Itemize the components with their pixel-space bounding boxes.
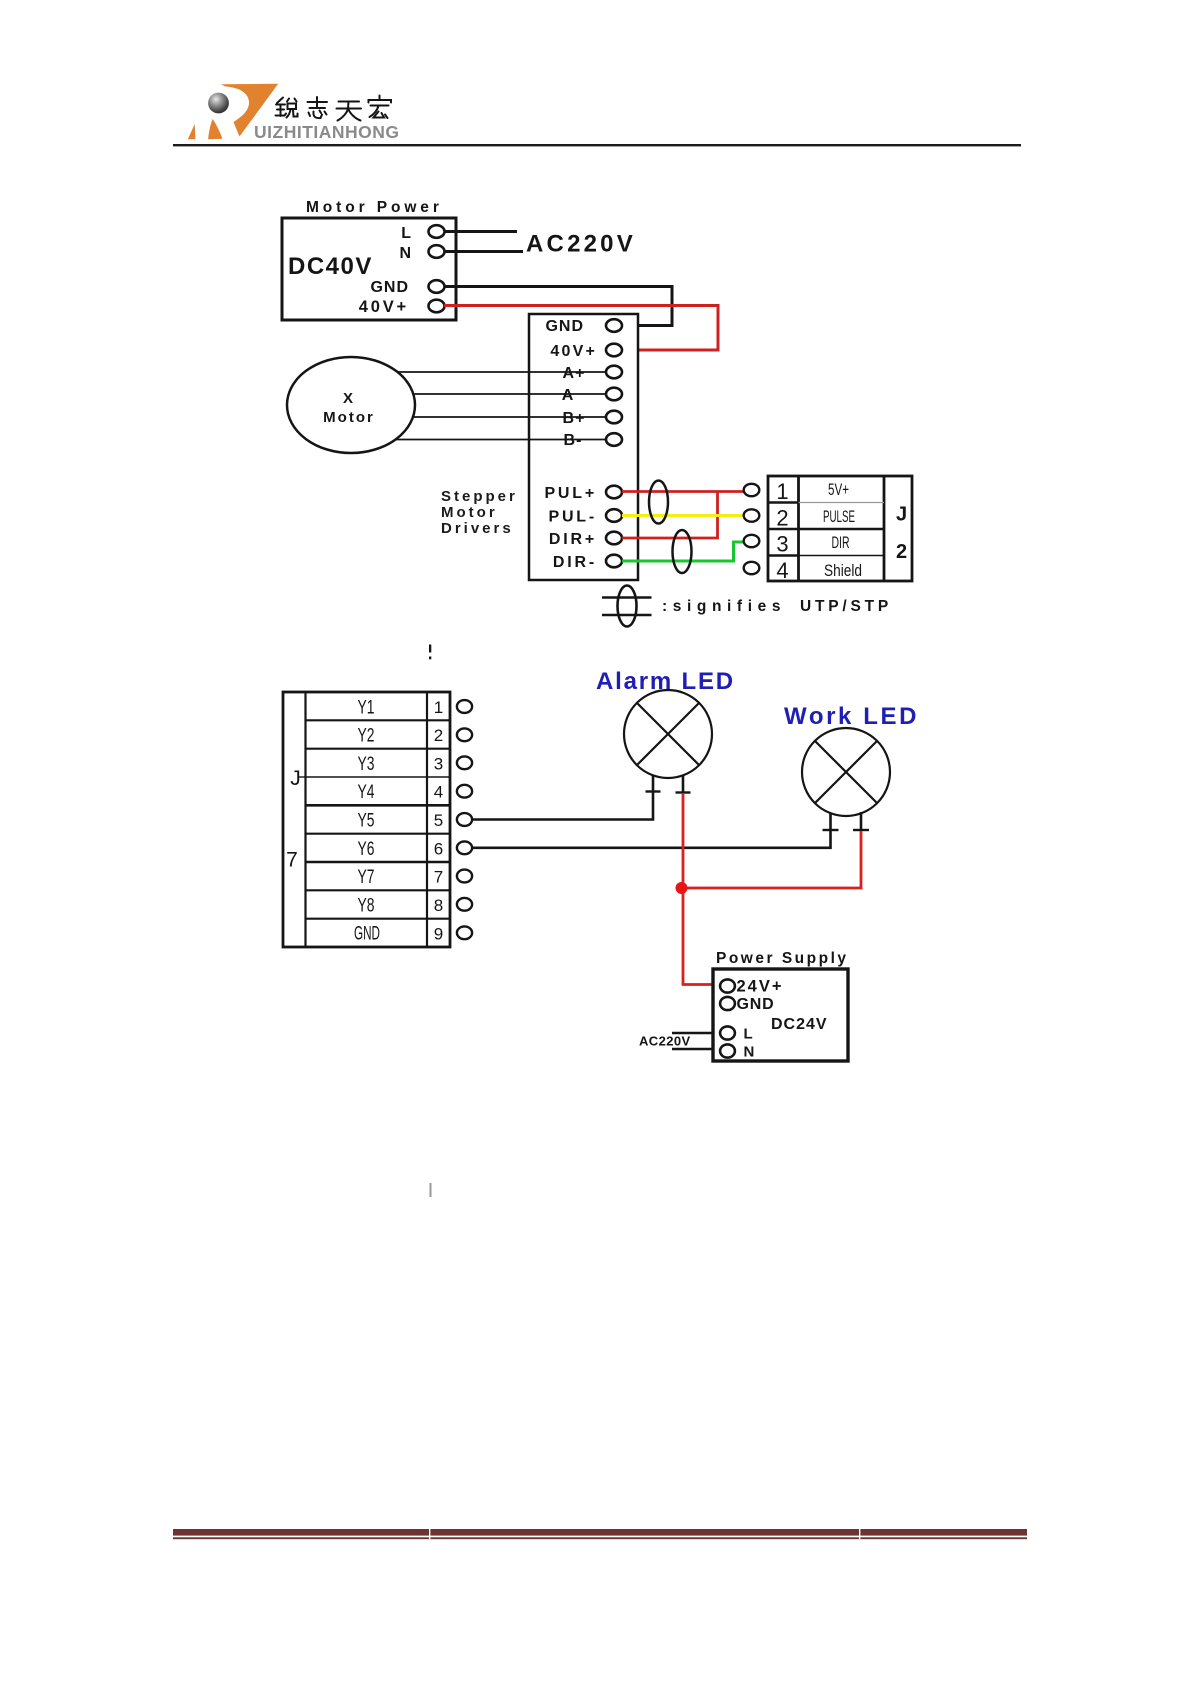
- work LED right lead tick: [853, 829, 869, 831]
- wire DIR- to J2 pin3 (green): [622, 542, 744, 561]
- wire motor phase B-: [396, 439, 606, 441]
- svg-text:5V+: 5V+: [828, 481, 849, 499]
- driver terminal 40V+: [606, 344, 622, 357]
- svg-text:2: 2: [434, 726, 443, 745]
- svg-text:GND: GND: [545, 318, 584, 335]
- svg-text:Y2: Y2: [358, 726, 375, 747]
- J2 pin number 1: [776, 479, 788, 504]
- svg-text:Power Supply: Power Supply: [716, 950, 849, 967]
- svg-text:Y6: Y6: [358, 839, 375, 860]
- connector J2 table: [768, 476, 912, 581]
- svg-text:8: 8: [434, 896, 443, 915]
- driver terminal A+: [606, 366, 622, 379]
- J7 signal GND: [354, 924, 380, 945]
- legend twisted-pair symbol: [602, 586, 652, 627]
- label Work LED: [784, 703, 919, 730]
- wire 40V+ to driver 40V+ (red): [444, 306, 718, 351]
- Power Supply title: [716, 950, 849, 967]
- J7 signal Y7: [358, 867, 375, 888]
- driver pin label PUL+: [544, 485, 597, 502]
- J2 pin1 terminal: [744, 484, 760, 496]
- pin label L: [401, 225, 411, 242]
- svg-text:UIZHITIANHONG: UIZHITIANHONG: [254, 122, 400, 142]
- work LED lamp: [802, 728, 890, 816]
- svg-text::signifies: :signifies: [662, 598, 786, 615]
- J2 pin number 4: [776, 558, 788, 583]
- svg-text:Y1: Y1: [358, 697, 375, 718]
- J2 pin number 3: [776, 532, 788, 557]
- logo Chinese characters 锐志天宏: [276, 96, 392, 121]
- J7 pin number 5: [434, 811, 443, 830]
- stray cursor mark: [430, 1183, 432, 1197]
- svg-text:DIR-: DIR-: [553, 554, 597, 571]
- svg-text:AC220V: AC220V: [639, 1034, 691, 1049]
- alarm LED left lead tick: [646, 790, 661, 792]
- svg-text:J: J: [896, 504, 907, 526]
- connector designator J7: [286, 767, 301, 872]
- svg-text:Y5: Y5: [358, 810, 375, 831]
- svg-text:Shield: Shield: [824, 562, 862, 580]
- svg-text:X: X: [343, 390, 355, 407]
- svg-text:L: L: [744, 1026, 753, 1043]
- junction node: [676, 882, 688, 894]
- stepper motor driver box: [529, 314, 638, 580]
- driver terminal DIR+: [606, 532, 622, 545]
- svg-text:7: 7: [286, 849, 298, 872]
- Motor Power supply box: [282, 218, 456, 320]
- svg-text:GND: GND: [370, 279, 409, 296]
- J7 pin number 8: [434, 896, 443, 915]
- 天: [339, 101, 360, 103]
- svg-text:N: N: [399, 245, 411, 262]
- X motor body: [287, 357, 415, 453]
- svg-text:N: N: [744, 1044, 755, 1061]
- header rule line: [173, 144, 1021, 146]
- terminal GND: [429, 280, 445, 293]
- J2 pin3 terminal: [744, 535, 760, 547]
- J7 signal Y2: [358, 726, 375, 747]
- svg-text:4: 4: [434, 783, 443, 802]
- twisted-pair symbol over PUL wires: [649, 481, 668, 524]
- svg-text:3: 3: [776, 532, 788, 557]
- svg-text:40V+: 40V+: [359, 298, 409, 316]
- Motor Power supply box label: [306, 199, 443, 216]
- driver pin label B+: [563, 410, 586, 427]
- svg-text:7: 7: [434, 868, 443, 887]
- pin label 24V+: [737, 978, 784, 996]
- J7 signal Y5: [358, 810, 375, 831]
- terminal GND (24V): [720, 997, 735, 1010]
- terminal L (mains): [720, 1026, 735, 1039]
- driver terminal PUL+: [606, 486, 622, 499]
- label Alarm LED: [596, 668, 735, 695]
- 锐: [277, 98, 283, 104]
- J7 signal Y6: [358, 839, 375, 860]
- svg-text:PUL+: PUL+: [544, 485, 597, 502]
- svg-text:Motor: Motor: [441, 504, 498, 521]
- svg-text:AC220V: AC220V: [526, 231, 636, 258]
- svg-text:B-: B-: [564, 432, 583, 449]
- driver pin label A+: [563, 365, 586, 382]
- svg-text:2: 2: [896, 541, 907, 563]
- pin label 40V+: [359, 298, 409, 316]
- driver pin label DIR-: [553, 554, 597, 571]
- wire GND to driver GND: [444, 287, 672, 326]
- svg-text:1: 1: [776, 479, 788, 504]
- svg-text:Motor: Motor: [323, 409, 375, 426]
- svg-text:GND: GND: [737, 996, 775, 1013]
- J7 pin number 7: [434, 868, 443, 887]
- pin label L: [744, 1026, 753, 1043]
- pin label GND: [737, 996, 775, 1013]
- terminal 24V+: [720, 979, 735, 992]
- 宏: [379, 96, 381, 100]
- legend text signifies UTP/STP: [662, 598, 892, 615]
- svg-text:L: L: [401, 225, 411, 242]
- J2 pin number 2: [776, 506, 788, 531]
- svg-text:GND: GND: [354, 924, 380, 945]
- svg-text:PUL-: PUL-: [548, 509, 597, 526]
- terminal L: [429, 225, 445, 238]
- terminal N: [429, 245, 445, 258]
- J7 terminal 4: [457, 785, 472, 798]
- svg-text:Drivers: Drivers: [441, 520, 514, 537]
- J7 pin number 3: [434, 754, 443, 773]
- svg-text:Work LED: Work LED: [784, 703, 919, 730]
- wire Y6 to work LED: [472, 812, 831, 848]
- footer rule bar: [173, 1529, 1027, 1539]
- pin label GND: [370, 279, 409, 296]
- J7 terminal 8: [457, 898, 472, 911]
- wire PUL+ to J2 pin1 (red): [622, 490, 744, 493]
- svg-text:5: 5: [434, 811, 443, 830]
- work LED right lead: [860, 812, 863, 831]
- svg-text:A+: A+: [563, 365, 586, 382]
- wire mains N: [672, 1048, 713, 1050]
- driver terminal B-: [606, 433, 622, 446]
- svg-text:J: J: [290, 767, 301, 790]
- svg-text:DC40V: DC40V: [288, 253, 373, 280]
- J7 pin number 4: [434, 783, 443, 802]
- J2 signal Shield: [824, 562, 862, 580]
- J7 signal Y4: [358, 782, 375, 803]
- driver terminal A: [606, 388, 622, 401]
- label Stepper Motor Drivers: [441, 488, 518, 537]
- J7 signal Y8: [358, 895, 375, 916]
- wire motor phase A: [413, 393, 606, 395]
- svg-text:Y8: Y8: [358, 895, 375, 916]
- wire N to AC220V: [444, 250, 523, 253]
- svg-text:B+: B+: [563, 410, 586, 427]
- wire Y5 to alarm LED: [472, 775, 653, 820]
- driver pin label 40V+: [550, 343, 597, 360]
- driver pin label B-: [564, 432, 583, 449]
- driver pin label PUL-: [548, 509, 597, 526]
- pin label N: [744, 1044, 755, 1061]
- J7 terminal 7: [457, 870, 472, 883]
- wire motor phase A+: [397, 371, 606, 373]
- svg-text:Stepper: Stepper: [441, 488, 518, 505]
- J7 terminal 1: [457, 700, 472, 713]
- J7 signal Y1: [358, 697, 375, 718]
- J2 signal PULSE: [823, 508, 855, 526]
- work LED left lead tick: [823, 829, 839, 831]
- svg-text:UTP/STP: UTP/STP: [800, 598, 892, 615]
- svg-text:DIR+: DIR+: [549, 531, 597, 548]
- power supply box: [713, 969, 848, 1061]
- driver pin label A: [562, 387, 575, 404]
- twisted-pair symbol over DIR wires: [673, 530, 692, 573]
- wire PUL- to J2 pin2 (yellow): [622, 514, 744, 517]
- svg-text:DC24V: DC24V: [771, 1016, 828, 1033]
- svg-text:DIR: DIR: [832, 534, 850, 552]
- svg-text:9: 9: [434, 924, 443, 943]
- svg-text:PULSE: PULSE: [823, 508, 855, 526]
- wire DIR+ to 5V rail (red): [622, 492, 718, 539]
- J7 terminal 6: [457, 841, 472, 854]
- 志: [308, 101, 328, 103]
- J7 pin number 1: [434, 698, 443, 717]
- J7 terminal 2: [457, 728, 472, 741]
- svg-text:1: 1: [434, 698, 443, 717]
- company logo mark: [188, 84, 278, 140]
- driver terminal PUL-: [606, 509, 622, 522]
- terminal 40V+: [429, 300, 445, 313]
- J7 pin number 6: [434, 839, 443, 858]
- J2 signal 5V+: [828, 481, 849, 499]
- connector J7 table: [283, 692, 450, 947]
- J7 terminal 9: [457, 926, 472, 939]
- wire motor phase B+: [413, 416, 606, 418]
- svg-text:Motor Power: Motor Power: [306, 199, 443, 216]
- svg-text:Y7: Y7: [358, 867, 375, 888]
- value label DC40V: [288, 253, 373, 280]
- svg-text:Y3: Y3: [358, 754, 375, 775]
- svg-text:40V+: 40V+: [550, 343, 597, 360]
- driver pin label DIR+: [549, 531, 597, 548]
- wire mains L: [672, 1032, 713, 1034]
- svg-text:Y4: Y4: [358, 782, 375, 803]
- J7 signal Y3: [358, 754, 375, 775]
- terminal N (mains): [720, 1044, 735, 1057]
- J2 signal DIR: [832, 534, 850, 552]
- J7 terminal 3: [457, 756, 472, 769]
- wire work LED to junction (red): [683, 831, 861, 888]
- pin label N: [399, 245, 411, 262]
- net label AC220V (mains input): [639, 1034, 691, 1049]
- J2 pin4 terminal: [744, 562, 760, 574]
- J7 pin number 9: [434, 924, 443, 943]
- driver terminal DIR-: [606, 555, 622, 568]
- J7 terminal 5: [457, 813, 472, 826]
- svg-text:6: 6: [434, 839, 443, 858]
- svg-text:24V+: 24V+: [737, 978, 784, 996]
- wire alarm LED to 24V+ (red): [683, 793, 713, 985]
- net label AC220V: [526, 231, 636, 258]
- alarm LED right lead tick: [676, 791, 691, 793]
- svg-text:4: 4: [776, 558, 788, 583]
- stray exclamation mark: [429, 645, 431, 660]
- svg-text:A: A: [562, 387, 575, 404]
- alarm LED lamp: [624, 690, 712, 778]
- value label DC24V: [771, 1016, 828, 1033]
- connector designator J2: [896, 504, 907, 564]
- svg-text:3: 3: [434, 754, 443, 773]
- driver pin label GND: [545, 318, 584, 335]
- alarm LED right lead: [682, 775, 685, 793]
- wire L to AC220V: [444, 230, 517, 233]
- J7 pin number 2: [434, 726, 443, 745]
- driver terminal GND: [606, 319, 622, 332]
- svg-text:2: 2: [776, 506, 788, 531]
- J2 pin2 terminal: [744, 509, 760, 521]
- driver terminal B+: [606, 411, 622, 424]
